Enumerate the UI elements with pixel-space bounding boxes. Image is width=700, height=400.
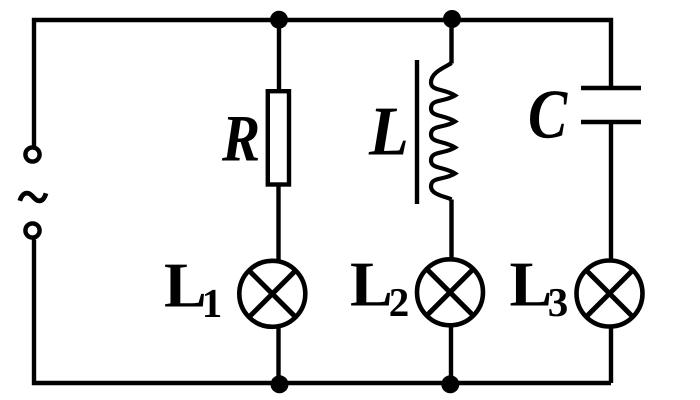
- svg-text:L: L: [368, 94, 409, 171]
- node: bottom junction branch 1: [271, 375, 289, 393]
- terminal (upper) of AC source: [25, 147, 39, 161]
- wire: left vertical (bottom segment) + bottom horizontal: [34, 240, 611, 384]
- node: top junction branch 1: [270, 11, 288, 29]
- resistor R (rectangle body): [268, 91, 289, 184]
- svg-text:R: R: [221, 102, 260, 175]
- wire: branch 2 from lamp L2 to bottom node: [449, 325, 453, 383]
- capacitor C top plate: [581, 86, 641, 90]
- wire: branch 1 from top node to resistor: [277, 19, 281, 90]
- lamp L1 (circle with inscribed cross): [239, 261, 305, 327]
- wire: branch 2 from top node to inductor coil: [449, 19, 453, 64]
- terminal (lower) of AC source: [25, 223, 39, 237]
- wire: branch 1 from resistor to lamp L1: [276, 185, 280, 262]
- wire: branch 1 from lamp L1 to bottom node: [276, 327, 280, 384]
- inductor L coil (5 bumps): [431, 63, 455, 200]
- svg-text:C: C: [528, 77, 568, 154]
- node: top junction branch 2: [443, 10, 461, 28]
- AC source tilde symbol: [20, 193, 46, 201]
- capacitor C bottom plate: [581, 120, 641, 124]
- lamp L2 (circle with inscribed cross): [417, 259, 483, 325]
- lamp L3 (circle with inscribed cross): [577, 261, 643, 327]
- wire: branch 3 from lamp L3 to bottom wire: [609, 327, 613, 384]
- wire: branch 3 from capacitor to lamp L3: [609, 122, 613, 261]
- wire: left vertical (top segment) + top horizontal + right branch down to capacitor: [34, 20, 611, 146]
- inductor core bar: [415, 60, 419, 204]
- node: bottom junction branch 2: [441, 375, 459, 393]
- wire: branch 2 from coil to lamp L2: [449, 200, 453, 261]
